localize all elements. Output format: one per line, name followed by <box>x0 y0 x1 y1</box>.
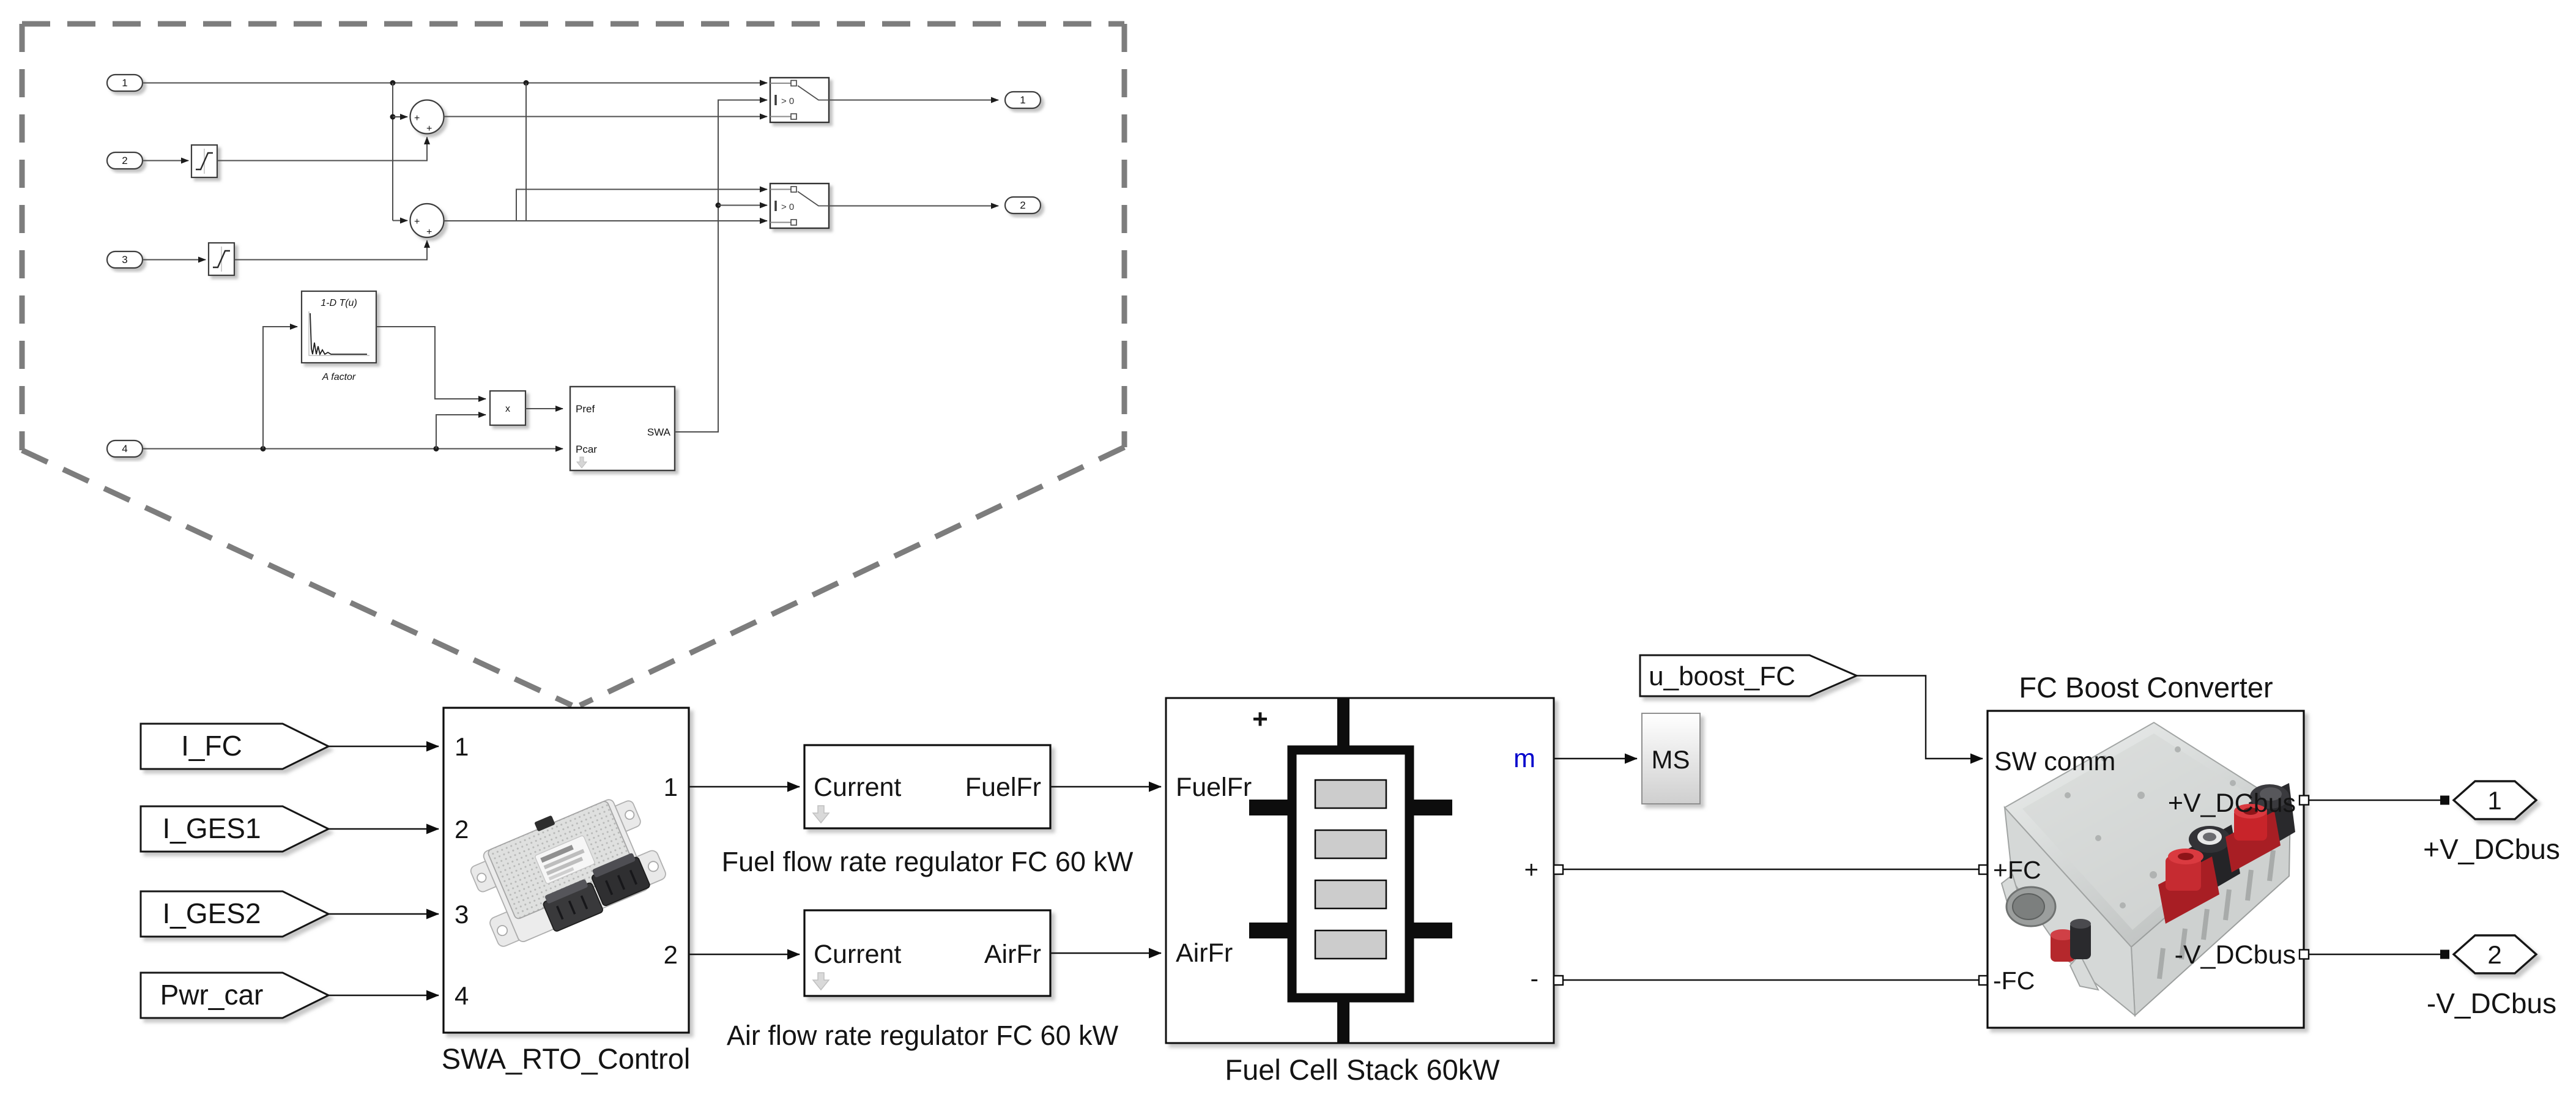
svg-text:m: m <box>1513 744 1535 773</box>
svg-text:Pwr_car: Pwr_car <box>160 979 264 1011</box>
junction dot <box>390 114 396 120</box>
tag u_boost_FC <box>1640 655 1857 696</box>
port square boost -V <box>2299 950 2309 959</box>
svg-text:1: 1 <box>664 773 678 801</box>
svg-text:Current: Current <box>814 940 901 969</box>
svg-text:4: 4 <box>122 443 127 455</box>
outport hexagon 2 <box>2454 935 2536 973</box>
saturation block 2 <box>209 243 234 275</box>
svg-text:u_boost_FC: u_boost_FC <box>1649 661 1795 691</box>
wire port2 to saturation1 <box>143 160 188 162</box>
wire I_GES2 to port3 <box>328 913 439 915</box>
junction dot <box>261 446 266 451</box>
block air flow regulator <box>804 910 1050 996</box>
svg-text:+: + <box>414 217 420 227</box>
svg-text:Pref: Pref <box>576 403 595 415</box>
svg-text:I_GES1: I_GES1 <box>162 812 261 844</box>
wire air regulator to stack AirFr <box>1050 953 1161 954</box>
port square outport1 left <box>2440 796 2449 805</box>
boost lower-right face with fins <box>2131 809 2290 1016</box>
svg-text:-V_DCbus: -V_DCbus <box>2427 987 2556 1019</box>
outport 1 <box>1005 92 1041 108</box>
MS block <box>1642 713 1700 804</box>
svg-text:1: 1 <box>122 77 127 89</box>
wire saturation2 to sum2 bottom <box>234 240 427 260</box>
junction dot <box>390 80 396 86</box>
boost round connector left <box>2006 887 2055 926</box>
svg-text:SWA_RTO_Control: SWA_RTO_Control <box>442 1042 691 1075</box>
svg-text:-FC: -FC <box>1993 967 2035 995</box>
port square stack - <box>1554 976 1563 985</box>
inport 4 <box>107 440 143 457</box>
block fuel flow regulator <box>804 745 1050 828</box>
svg-text:I_FC: I_FC <box>181 730 242 762</box>
product block x <box>490 391 525 425</box>
port square boost +FC <box>1979 865 1988 874</box>
dashed callout border right <box>1122 24 1127 447</box>
port square stack + <box>1554 865 1563 874</box>
wire switch1 to outport 1 <box>829 100 998 101</box>
svg-text:+V_DCbus: +V_DCbus <box>2423 833 2560 865</box>
svg-text:SWA: SWA <box>647 426 671 438</box>
wire boost +V to outport 1 <box>2308 800 2449 801</box>
wire sum1 to switch1 bottom <box>444 116 768 117</box>
svg-text:+: + <box>414 113 420 124</box>
outport 2 <box>1005 197 1041 214</box>
svg-text:> 0: > 0 <box>781 96 794 106</box>
wire SWA branch to switch2 middle <box>718 205 767 206</box>
ECU photo <box>460 783 670 954</box>
svg-text:FuelFr: FuelFr <box>965 773 1041 802</box>
goto tag I_FC <box>141 724 328 769</box>
inport 3 <box>107 251 143 268</box>
svg-text:1: 1 <box>1020 94 1025 106</box>
wire port1 branch down to switch2 bottom line <box>525 83 527 221</box>
boost port labels <box>1993 747 2296 995</box>
boost small black connector <box>2070 919 2091 959</box>
svg-text:I_GES2: I_GES2 <box>162 897 261 929</box>
switch SW2 <box>770 184 829 228</box>
wire branch sum2 up to switch2 top <box>516 190 767 221</box>
ECU top tab <box>534 815 555 832</box>
svg-text:Fuel flow rate regulator FC 60: Fuel flow rate regulator FC 60 kW <box>722 846 1134 877</box>
svg-text:+FC: +FC <box>1993 856 2041 884</box>
junction dot <box>434 446 439 451</box>
wire port4 to Pcar <box>143 448 563 450</box>
subsystem block SWA <box>570 387 675 470</box>
wire sum2 to switch2 bottom <box>444 220 768 221</box>
wire stack - to boost -FC <box>1562 979 1983 981</box>
svg-text:1-D T(u): 1-D T(u) <box>321 298 357 308</box>
svg-text:+: + <box>426 227 432 237</box>
junction dot <box>716 202 721 208</box>
svg-text:+V_DCbus: +V_DCbus <box>2168 789 2296 818</box>
boost converter photo <box>2002 722 2295 1016</box>
wire product to Pref <box>525 408 563 409</box>
wire saturation1 to sum1 bottom <box>217 137 427 161</box>
wire SWA out2 to air regulator <box>689 954 800 955</box>
block SWA_RTO_Control <box>444 708 689 1033</box>
stack battery icon <box>1249 698 1452 1043</box>
wire u_boost_FC to SW comm <box>1857 676 1983 759</box>
saturation block 1 <box>191 145 217 177</box>
wire Pwr_car to port4 <box>328 995 439 996</box>
sum S1 <box>410 100 444 135</box>
svg-text:AirFr: AirFr <box>1176 938 1233 968</box>
goto tag I_GES2 <box>141 891 328 937</box>
svg-text:+: + <box>1252 704 1268 734</box>
inport 2 <box>107 152 143 169</box>
wire SWA out1 to fuel regulator <box>689 786 800 787</box>
svg-text:2: 2 <box>2487 940 2501 969</box>
svg-text:2: 2 <box>122 155 127 166</box>
ECU body base <box>482 798 650 943</box>
svg-text:x: x <box>505 404 510 414</box>
boost mounting brackets left <box>2002 875 2024 912</box>
boost red post A <box>2158 849 2219 924</box>
port square boost +V <box>2299 796 2309 805</box>
boost red post B <box>2225 804 2281 872</box>
ECU perforated top plate <box>487 800 636 920</box>
port square boost -FC <box>1979 976 1988 985</box>
wire vertical from port1 to sums <box>392 83 393 221</box>
ECU connectors <box>538 852 652 932</box>
wire into sum1 left <box>393 116 407 117</box>
switch SW1 <box>770 78 829 122</box>
goto tag Pwr_car <box>141 973 328 1018</box>
sum S2 <box>410 204 444 237</box>
dashed callout border left <box>20 24 25 450</box>
wire stack m to MS <box>1554 758 1637 759</box>
svg-text:-: - <box>1531 965 1539 992</box>
wire stack + to boost +FC <box>1562 869 1983 871</box>
inport 1 <box>107 75 143 91</box>
wire boost -V to outport 2 <box>2308 954 2449 956</box>
svg-text:1: 1 <box>455 732 469 761</box>
port square outport2 left <box>2440 950 2449 959</box>
boost small red connector <box>2051 929 2075 962</box>
boost black post right <box>2249 783 2295 854</box>
svg-text:+: + <box>1524 856 1539 883</box>
boost top face <box>2005 722 2290 947</box>
goto tag I_GES1 <box>141 806 328 852</box>
dashed callout border top <box>22 21 1124 27</box>
dashed callout diagonal left <box>22 450 572 705</box>
svg-text:2: 2 <box>455 815 469 844</box>
wire lookup to product input1 <box>376 327 486 399</box>
outport hexagon 1 <box>2454 781 2536 819</box>
svg-text:SW comm: SW comm <box>1994 747 2115 776</box>
wire fuel regulator to stack FuelFr <box>1050 786 1161 787</box>
boost lower-left face <box>2005 808 2135 1016</box>
wire switch2 to outport 2 <box>829 206 998 207</box>
ECU mounting ears <box>469 861 496 894</box>
svg-text:A factor: A factor <box>322 372 356 382</box>
svg-text:FC Boost Converter: FC Boost Converter <box>2019 671 2273 704</box>
svg-text:3: 3 <box>455 900 469 929</box>
svg-text:> 0: > 0 <box>781 202 794 212</box>
wire SWA output up to switches <box>675 100 767 433</box>
svg-text:Air flow rate regulator FC 60: Air flow rate regulator FC 60 kW <box>727 1020 1119 1051</box>
block Fuel Cell Stack <box>1166 698 1554 1043</box>
svg-text:Pcar: Pcar <box>576 444 597 455</box>
dashed callout diagonal right <box>580 447 1124 705</box>
svg-text:AirFr: AirFr <box>984 940 1041 969</box>
svg-text:MS: MS <box>1652 745 1690 774</box>
junction dot <box>524 80 529 86</box>
wire port4 up to lookup table <box>263 327 297 449</box>
svg-text:FuelFr: FuelFr <box>1176 773 1252 802</box>
svg-text:1: 1 <box>2487 786 2501 815</box>
wire I_FC to port1 <box>328 746 439 747</box>
boost screws on top <box>2065 746 2236 908</box>
svg-text:-V_DCbus: -V_DCbus <box>2175 940 2296 970</box>
svg-text:3: 3 <box>122 254 127 266</box>
wire into sum2 left <box>393 220 407 221</box>
svg-text:4: 4 <box>455 981 469 1010</box>
svg-text:Fuel Cell Stack 60kW: Fuel Cell Stack 60kW <box>1225 1053 1500 1086</box>
svg-text:2: 2 <box>1020 199 1025 211</box>
wire port4 up to product input2 <box>436 415 486 449</box>
svg-text:Current: Current <box>814 773 901 802</box>
lookup table A factor <box>302 291 376 382</box>
wire port1 to switch1 top <box>143 83 767 84</box>
block FC Boost Converter <box>1988 711 2304 1028</box>
svg-text:+: + <box>426 124 432 134</box>
wire I_GES1 to port2 <box>328 828 439 830</box>
ECU white label <box>535 835 595 884</box>
svg-text:2: 2 <box>664 940 678 969</box>
wire port3 to saturation2 <box>143 259 206 261</box>
boost black post mid <box>2188 825 2240 899</box>
